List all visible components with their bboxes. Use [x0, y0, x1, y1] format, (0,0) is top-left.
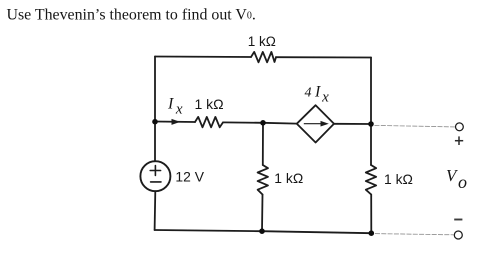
svg-text:1 kΩ: 1 kΩ — [195, 96, 224, 112]
svg-text:1 kΩ: 1 kΩ — [274, 170, 303, 186]
svg-text:Use Thevenin’s theorem to find: Use Thevenin’s theorem to find out V0. — [7, 7, 256, 24]
svg-text:12 V: 12 V — [175, 169, 204, 185]
svg-text:1 kΩ: 1 kΩ — [384, 171, 413, 187]
svg-text:1 kΩ: 1 kΩ — [248, 34, 276, 49]
